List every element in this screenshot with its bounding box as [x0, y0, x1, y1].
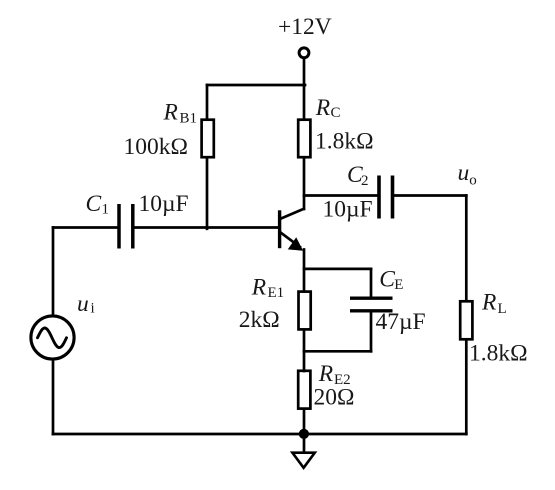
svg-text:o: o: [469, 172, 477, 188]
wire CE lower lead: [370, 312, 373, 351]
svg-text:B1: B1: [180, 111, 198, 127]
svg-text:2: 2: [361, 173, 369, 189]
resistor RL: [460, 301, 472, 339]
svg-text:R: R: [163, 100, 178, 126]
wire CE upper lead: [370, 269, 373, 297]
wire RE2 to ground node: [303, 410, 306, 435]
transistor Q1 base bar: [278, 212, 281, 247]
svg-text:R: R: [251, 274, 266, 300]
svg-text:1.8kΩ: 1.8kΩ: [469, 341, 528, 367]
wire RL to bottom rail: [465, 340, 468, 435]
resistor RE2: [298, 371, 310, 409]
svg-text:+12V: +12V: [278, 14, 332, 40]
svg-text:u: u: [458, 160, 470, 186]
svg-text:C: C: [86, 191, 102, 217]
wire C1 to base: [135, 226, 279, 229]
svg-text:100kΩ: 100kΩ: [124, 134, 188, 160]
wire RB1 to base node: [206, 158, 209, 229]
svg-text:i: i: [91, 301, 95, 317]
ground: [292, 453, 314, 468]
wire left rail upper: [52, 228, 55, 315]
svg-text:1: 1: [102, 201, 110, 217]
svg-text:10µF: 10µF: [323, 197, 373, 223]
wire output node down to RL: [465, 196, 468, 302]
svg-text:C: C: [331, 105, 341, 121]
resistor RC: [298, 120, 310, 158]
supply terminal +12V: [299, 48, 309, 58]
wire input to C1: [53, 226, 117, 229]
svg-text:E: E: [394, 277, 403, 293]
wire C2 to output node: [394, 194, 466, 197]
svg-text:2kΩ: 2kΩ: [239, 307, 280, 333]
svg-text:1.8kΩ: 1.8kΩ: [315, 129, 374, 155]
wire bottom rail: [53, 433, 466, 436]
wire collector to C2: [304, 194, 378, 197]
wire supply vertical: [303, 59, 306, 120]
svg-text:20Ω: 20Ω: [314, 384, 355, 410]
capacitor C2: [379, 176, 393, 219]
svg-text:47µF: 47µF: [376, 309, 426, 335]
wire RE1/CE bottom link: [304, 350, 371, 353]
svg-text:L: L: [498, 301, 507, 317]
svg-text:C: C: [379, 267, 395, 293]
capacitor C1: [119, 204, 133, 249]
wire left rail lower: [52, 359, 55, 434]
transistor Q1 collector diagonal: [281, 209, 304, 219]
wire emitter down: [303, 250, 306, 292]
source ui: [31, 316, 74, 359]
svg-text:R: R: [315, 95, 330, 121]
svg-text:R: R: [318, 361, 333, 387]
svg-text:u: u: [77, 291, 89, 317]
wire RB1 branch upper: [206, 85, 209, 120]
wire top horizontal to RB1 branch: [207, 84, 305, 87]
wire RE1/CE top link: [304, 268, 371, 271]
wire RE1 to RE2: [303, 331, 306, 372]
svg-text:R: R: [481, 289, 496, 315]
resistor RB1: [202, 120, 214, 158]
transistor Q1 emitter diagonal with arrow: [281, 233, 301, 248]
node ground junction: [299, 429, 309, 439]
svg-text:10µF: 10µF: [139, 191, 189, 217]
capacitor CE: [350, 298, 393, 311]
wire RC to collector: [303, 158, 306, 210]
svg-text:E1: E1: [268, 285, 285, 301]
resistor RE1: [299, 292, 311, 330]
ground stub: [303, 434, 306, 453]
